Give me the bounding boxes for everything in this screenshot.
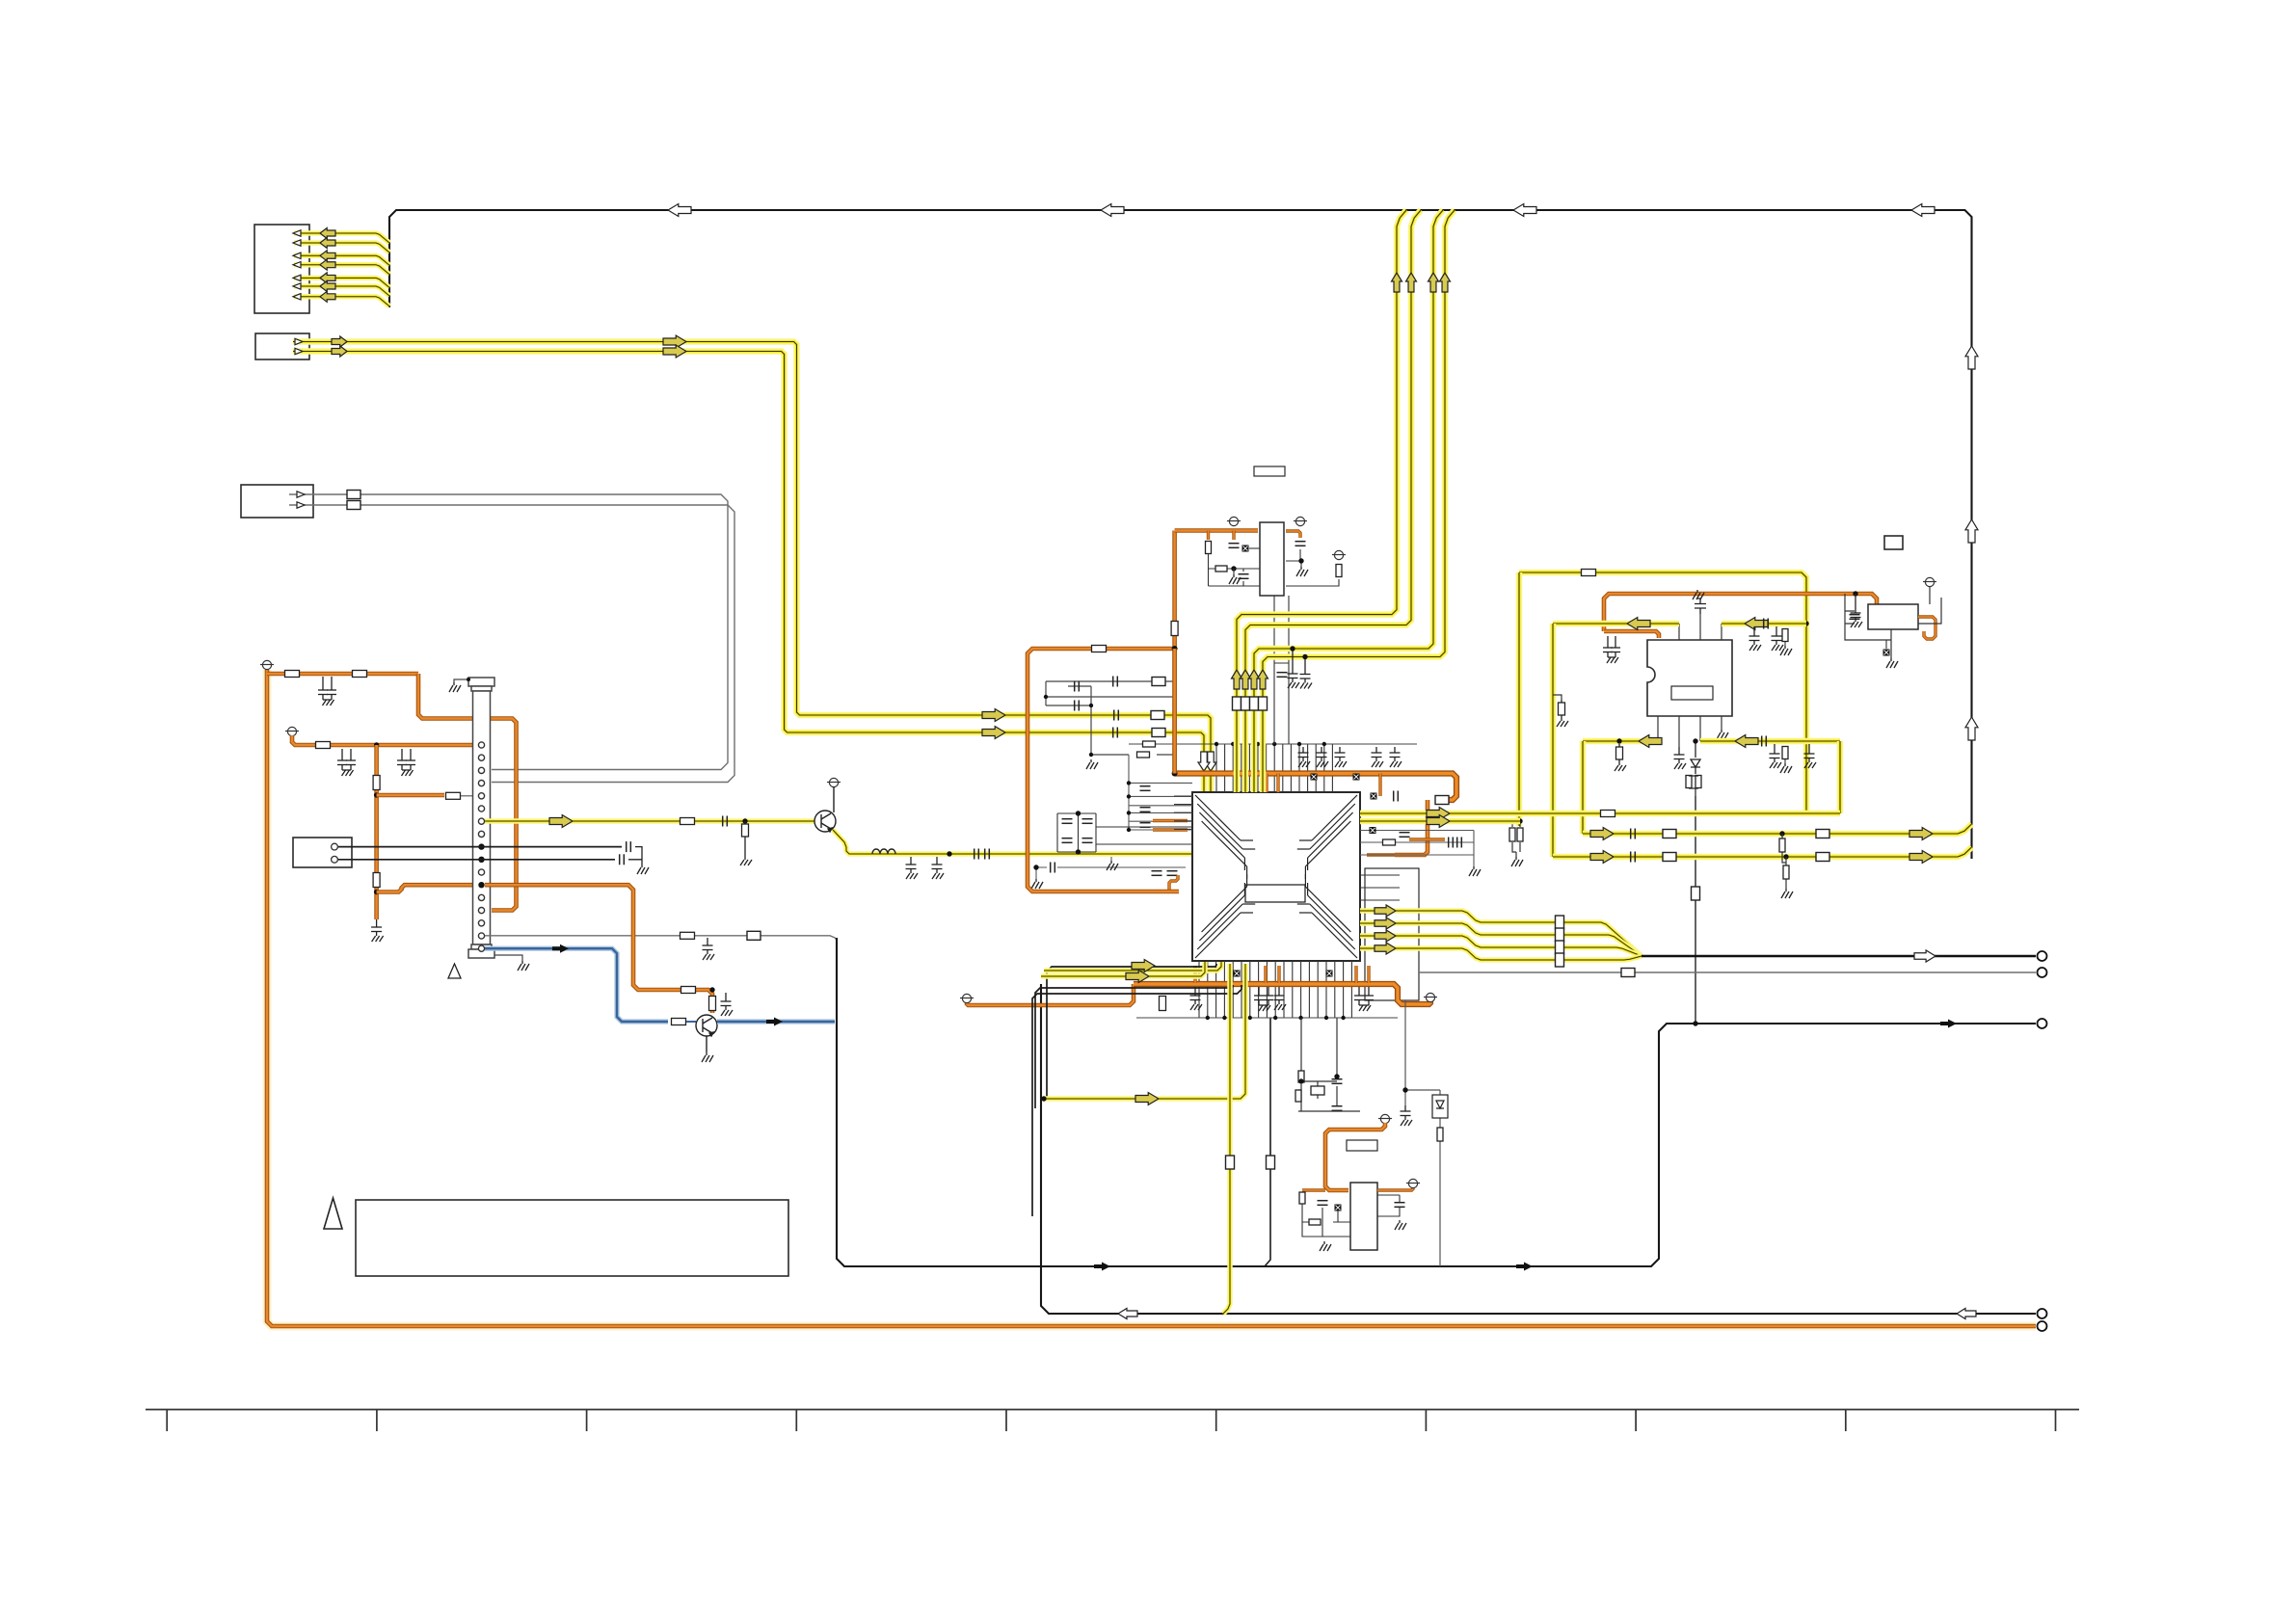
wire orange reg2 left bracket: [1302, 1188, 1325, 1191]
capacitor right pair b: [1457, 838, 1462, 848]
junction IC603 out: [1298, 558, 1303, 563]
wire Q2 emitter: [706, 1036, 707, 1052]
ground SW caps: [637, 865, 649, 874]
resistor upper ladder: [1137, 752, 1150, 758]
resistor on pin16 line: [681, 932, 695, 939]
switch SW box: [293, 838, 352, 867]
wire IC601 top pin stubs: [1216, 744, 1332, 792]
junction diode top: [1693, 738, 1697, 743]
junction upper ladder b: [1089, 704, 1093, 707]
junction yellow vbus a: [1290, 646, 1295, 651]
ground U3: [1886, 658, 1898, 668]
capacitor pair bottom bus de: [1354, 987, 1374, 1011]
square mark c: [1371, 793, 1377, 800]
pin FFC-9 (filled): [478, 843, 484, 849]
arrow CN1 signal 7: [320, 291, 335, 302]
wire CN1 yellow signal 5: [294, 278, 389, 287]
resistor in orange vertical: [373, 776, 380, 790]
wire blue Q2 out: [717, 1019, 835, 1024]
arrow on top bus: [668, 204, 691, 217]
capacitor pair to gnd P2 ab: [337, 749, 356, 776]
arrow CN2-A: [332, 336, 347, 347]
capacitor amp in2 gnd2: [1772, 626, 1784, 651]
wire cap grid frame: [1057, 813, 1192, 852]
capacitor series on 886 b: [985, 849, 990, 860]
pin FFC-7: [478, 818, 484, 824]
arrow on right bus vertical: [1965, 717, 1978, 740]
capacitor top decoupling 3: [1335, 747, 1348, 767]
capacitor yellow vbus b: [1300, 657, 1313, 689]
capacitor reg2 right: [1395, 1203, 1405, 1208]
arrow yellow vbus low 4: [1258, 670, 1268, 689]
pin CN3-2: [297, 502, 305, 508]
arrow y889: [1590, 851, 1614, 864]
ferrite yellow vbus 2: [1241, 697, 1250, 710]
capacitor right rows: [1400, 833, 1410, 838]
wire CN1 yellow signal 6: [294, 286, 389, 296]
square mark IC603: [1242, 545, 1249, 552]
ferrite yellow vbus 4: [1259, 697, 1268, 710]
pin CN1-4: [293, 262, 301, 268]
pin FFC-11: [478, 869, 484, 875]
wire vertical 1318 to bus: [1265, 1018, 1270, 1266]
connector CN1: [254, 225, 309, 313]
wire IC603 left net: [1209, 554, 1261, 586]
ground amp or drop: [1780, 763, 1792, 773]
arrow yellow below 3: [1135, 1093, 1159, 1105]
wire CN2 yellow A: [293, 342, 1211, 793]
capacitor top decoupling 5: [1390, 747, 1402, 767]
arrow CN1 signal 3: [320, 251, 335, 261]
wire rail under IC601: [1136, 1017, 1398, 1019]
wire orange stub up 5: [1367, 966, 1370, 983]
wire orange bar left rows b: [1153, 828, 1188, 831]
wire CN2 yellow B: [293, 352, 1204, 793]
wire gnd stub under yellow: [1110, 857, 1112, 861]
arrow amp in: [1627, 618, 1650, 630]
wire IC603 fb gnd lead: [1233, 569, 1235, 574]
arrow yellow vbus low 3: [1249, 670, 1260, 689]
junction IC603 fb: [1231, 566, 1236, 571]
ground under yellow: [1107, 861, 1118, 870]
wire thin line to terminal 1009: [1419, 971, 2036, 973]
capacitor pair amp feed: [1603, 636, 1620, 663]
wire yellow line y865: [1583, 824, 1972, 834]
arrow QFP out A: [1427, 808, 1450, 820]
resistor pair below diode b: [1695, 776, 1701, 788]
wire orange stub up 3: [1277, 966, 1280, 983]
resistor to FFC pin5: [446, 792, 461, 799]
wire orange bus top: [1172, 531, 1177, 774]
wire IC601 left rows: [1129, 783, 1192, 830]
junction grid a: [1076, 811, 1081, 815]
resistor amp or drop: [1782, 747, 1788, 759]
wire yellow QFP out B: [1360, 818, 1520, 825]
capacitor series on 886: [974, 849, 979, 860]
arrow amp out left: [1639, 735, 1662, 748]
capacitor row 906 a: [1152, 871, 1162, 876]
wire orange P2 branch: [292, 735, 479, 745]
wire yellow line y889: [1553, 847, 1972, 857]
arrow on loop: [1094, 1263, 1110, 1271]
capacitor yellow vbus a: [1288, 649, 1300, 688]
arrow on right bus vertical: [1965, 519, 1978, 543]
capacitor reg2 left: [1318, 1201, 1328, 1206]
wire bus above IC601: [1129, 743, 1417, 745]
arrow yellow below 2: [1126, 971, 1149, 983]
arrow yellow vbus 2: [1406, 273, 1417, 292]
arrow on top bus: [1101, 204, 1124, 217]
arrow blue Q2 out: [766, 1018, 783, 1026]
resistor on P1 branch 2: [353, 671, 367, 678]
resistor reg2 left: [1299, 1192, 1305, 1204]
capacitor IC603 in: [1229, 544, 1240, 548]
wire orange IC603 out: [1286, 531, 1300, 538]
capacitor top decoupling 1: [1298, 747, 1311, 767]
power flag bottom right: [1424, 993, 1437, 1001]
junction orange y802: [1172, 771, 1178, 777]
IC601 corner pins top-left: [1195, 795, 1255, 879]
arrow on right bus vertical: [1965, 346, 1978, 369]
capacitor left column 3: [1140, 823, 1151, 828]
wire orange bus y802: [1175, 774, 1456, 801]
wire orange stub r1253: [1207, 531, 1210, 541]
capacitor amp in2 gnd: [1749, 626, 1762, 651]
resistor on y844: [1601, 811, 1615, 817]
resistor pair below diode a: [1686, 776, 1692, 788]
wire thin to pin5: [461, 795, 479, 797]
arrow yellow bundle 3: [1375, 930, 1396, 942]
wire orange drop 1432: [1378, 774, 1381, 797]
ferrite on yellow 1276: [1226, 1156, 1235, 1169]
pin FFC-1: [478, 742, 484, 748]
wire FFC top ground lead: [454, 679, 468, 682]
arrow yellow vbus 1: [1392, 273, 1402, 292]
wire SW-2 to caps: [338, 859, 615, 861]
arrow yellow vbus low 1: [1232, 670, 1242, 689]
photo-diode box D1: [1432, 1095, 1448, 1118]
wire yellow Q1 out: [833, 830, 1192, 854]
ferrite bundle 3: [1556, 941, 1564, 954]
arrow QFP out B: [1427, 815, 1450, 828]
wire orange stub r1280: [1232, 531, 1235, 541]
junction amp out left: [1616, 738, 1621, 743]
junction y865 res: [1779, 831, 1784, 836]
wire U2 pin stubs: [1658, 614, 1722, 747]
wire orange pin12 run: [485, 885, 712, 1013]
arrow on y1363 b: [1957, 1309, 1976, 1319]
pin CN2-1: [295, 338, 303, 344]
ferrite yellow vbus 1: [1233, 697, 1241, 710]
wire Q2 base lead: [686, 1021, 696, 1023]
transistor Q2: [696, 1015, 717, 1036]
wire gray FFC pin16: [485, 936, 837, 940]
wire top bus with right vertical: [389, 210, 1972, 859]
wire U3 left net: [1845, 594, 1941, 658]
square mark bottom b: [1326, 971, 1333, 977]
square mark reg2: [1335, 1205, 1342, 1211]
wire crystal net: [1298, 1018, 1360, 1111]
wire CN1 yellow signal 7: [294, 297, 389, 306]
wire yellow vertical bus 3: [1254, 210, 1443, 792]
wire gray rows right: [1360, 831, 1474, 862]
wire IC603 fb cap link: [1242, 569, 1244, 586]
capacitor amp or gnd b: [1804, 744, 1817, 768]
wire caps to gnd: [628, 847, 642, 865]
ground upper ladder: [1086, 759, 1098, 769]
ferrite on orange vertical: [1171, 622, 1178, 636]
pin FFC-6: [478, 806, 484, 811]
capacitor amp in2: [1764, 619, 1769, 629]
regulator IC603: [1260, 522, 1284, 596]
pin FFC-15: [478, 920, 484, 926]
wire orange IC603 feed: [1175, 528, 1258, 533]
resistor orange drop: [709, 997, 716, 1011]
IC601 corner pins bottom-left: [1195, 874, 1255, 958]
capacitor to gnd pin16: [703, 938, 715, 960]
junction row 900: [1033, 865, 1038, 869]
wire U3 mark lead: [1885, 640, 1887, 649]
resistor tap a: [1779, 838, 1785, 852]
ruler ticks: [167, 1410, 2055, 1432]
arrow CN1 signal 5: [320, 273, 335, 283]
wire orange to FFC pin12: [377, 885, 479, 891]
IC U3 box: [1868, 604, 1918, 629]
arrow yellow bundle 2: [1375, 918, 1396, 929]
arrow down into IC601 B: [1198, 752, 1210, 771]
pin CN1-5: [293, 275, 301, 280]
wire 1611 stub: [1553, 695, 1562, 700]
wire yellow bundle 2: [1360, 923, 1642, 956]
wire yellow vertical 1276: [1223, 964, 1230, 1314]
pin FFC-16: [478, 933, 484, 939]
capacitor on CN2-B: [1113, 728, 1118, 738]
ground resistor taps: [1781, 889, 1793, 898]
capacitor series pin7: [723, 816, 728, 827]
resistor crystal b: [1295, 1090, 1301, 1102]
wire CN1 yellow signal 3: [294, 255, 389, 265]
wire amp or drop gnd: [1784, 759, 1786, 763]
resistor amp out left: [1615, 744, 1626, 771]
wire orange to FFC pin5: [377, 793, 444, 798]
wire loop L3: [1035, 985, 1233, 1108]
capacitor IC603 out: [1295, 542, 1306, 546]
square mark b: [1353, 774, 1360, 781]
arrow yellow pin7: [549, 815, 573, 828]
capacitor row 906 b: [1167, 871, 1178, 876]
transistor Q1: [814, 811, 836, 832]
wire orange P1 branch: [267, 672, 418, 677]
junction amp top/647: [1803, 621, 1808, 625]
junction orange C: [1172, 646, 1178, 652]
resistor to gnd on pin7 line: [740, 821, 752, 865]
capacitor to gnd on 886 b: [932, 857, 945, 879]
wire CN1 yellow signal 4: [294, 265, 389, 275]
wire yellow below QFP 2: [1041, 962, 1205, 976]
resistor 1611 stub: [1557, 700, 1568, 727]
junction pin7 line: [742, 818, 747, 823]
capacitor y889: [1631, 852, 1636, 863]
wire left rows rail: [1128, 755, 1130, 830]
wire orange vert to C: [1172, 649, 1177, 774]
capacitor upper ladder a: [1113, 677, 1118, 687]
arrow down into IC601 A: [1205, 752, 1216, 771]
wire black loop to terminal: [837, 938, 2036, 1266]
arrow yellow bundle 4: [1375, 943, 1396, 954]
wire IC601 bottom pin stubs: [1199, 961, 1351, 1018]
capacitor grid d: [1082, 838, 1093, 843]
square mark bottom a: [1234, 971, 1241, 977]
arrow CN2-B 2: [663, 345, 686, 358]
wire orange amp feed stub: [1604, 631, 1659, 638]
junction on 886: [947, 851, 951, 856]
wire reg vertical a: [1273, 596, 1275, 744]
wire amp in2 drop gnd: [1784, 642, 1786, 646]
capacitor orange vert bottom: [371, 919, 384, 942]
junction orange amp: [1853, 591, 1857, 596]
wire 1576 resistor pair: [1512, 821, 1520, 857]
capacitor near Q2: [721, 993, 734, 1016]
wire orange bar r2: [1367, 853, 1395, 856]
power flag reg2 right: [1406, 1179, 1420, 1187]
junction dots bottom rail: [1206, 1016, 1346, 1020]
ground reg2 bottom: [1320, 1241, 1331, 1251]
pin FFC-10 (filled): [478, 857, 484, 863]
wire yellow amp loop 1642: [1580, 741, 1587, 834]
ferrite y889 b: [1816, 853, 1829, 862]
capacitor on 1458: [1401, 1105, 1413, 1126]
resistor amp in2 drop: [1782, 629, 1788, 642]
capacitor bottom bus c: [1274, 987, 1287, 1010]
junction 1458: [1402, 1087, 1407, 1092]
ferrite yellow vbus 3: [1250, 697, 1259, 710]
arrow CN1 signal 2: [320, 238, 335, 249]
arrow y865: [1590, 828, 1614, 840]
ferrite y889: [1663, 853, 1676, 862]
capacitor pair to gnd P2 cd: [397, 749, 415, 776]
power flag U3: [1923, 577, 1936, 586]
inductor on yellow 886: [872, 849, 895, 854]
resistor below D1: [1437, 1128, 1443, 1141]
capacitor crystal a: [1332, 1079, 1343, 1084]
connector FFC body: [468, 678, 494, 958]
capacitor U2 bottom pin: [1674, 747, 1687, 769]
wire CN1 yellow signal 2: [294, 243, 389, 253]
wire orange main rail: [267, 670, 2036, 1326]
arrow CN2-B: [332, 346, 347, 357]
wire CN3 gray A: [289, 494, 728, 770]
resistor in orange vertical 2: [373, 873, 380, 888]
arrow CN2-A 3: [982, 709, 1005, 722]
resistor 1576 b: [1517, 828, 1523, 841]
junction crystal b: [1334, 1074, 1339, 1078]
pin FFC-13: [478, 894, 484, 900]
junction dots left rows: [1127, 781, 1131, 832]
wire U3 pwr lead: [1929, 586, 1931, 604]
wire yellow vertical bus 2: [1245, 210, 1421, 792]
capacitor between reg verticals: [1277, 673, 1288, 678]
terminal bundle: [2038, 951, 2047, 961]
terminal 1009: [2038, 968, 2047, 977]
ruler line: [146, 1409, 2079, 1411]
capacitor top decoupling 4: [1372, 747, 1384, 767]
wire SW-1 to caps: [338, 846, 622, 848]
wire yellow amp top: [1519, 572, 1806, 813]
junction 1576/852: [1517, 818, 1522, 823]
power flag IC603 in: [1227, 517, 1241, 525]
capacitor on SW-2 line: [620, 854, 625, 865]
capacitor grid a: [1062, 819, 1073, 824]
power flag IC603 out: [1294, 517, 1307, 525]
ferrite on CN2-A: [1151, 711, 1164, 720]
wire CN3 gray B: [289, 505, 734, 783]
ferrite y865: [1663, 830, 1676, 838]
wire orange C loop: [1028, 649, 1179, 891]
diode below U2: [1691, 741, 1700, 774]
capacitor on SW-1 line: [627, 841, 631, 852]
wire loop L1: [1047, 964, 1216, 1099]
wire orange stub a: [1265, 774, 1268, 793]
ferrite on pin16 line: [747, 931, 761, 940]
power flag IC603 en: [1332, 550, 1346, 559]
arrow CN2-B 3: [982, 727, 1005, 739]
resistor reg2 left b: [1309, 1219, 1321, 1225]
arrow yellow bundle 1: [1375, 905, 1396, 917]
junction 1759 bottom: [1693, 1021, 1697, 1025]
junction yellow/L1: [1041, 1096, 1046, 1101]
ferrite on CN3-A: [347, 491, 360, 499]
ferrite on 1759: [1692, 887, 1700, 900]
capacitor grid b: [1062, 838, 1073, 843]
wire yellow bundle 1: [1360, 911, 1642, 956]
wire bus y1363: [1041, 984, 2036, 1314]
pin FFC-17: [478, 945, 484, 951]
capacitor upper ladder b: [1075, 681, 1080, 692]
wire yellow amp in: [1553, 621, 1679, 627]
wire yellow vertical bus 1: [1237, 210, 1406, 792]
resistor IC603 in: [1206, 542, 1212, 554]
wire orange stub up 1: [1193, 966, 1196, 983]
arrow on loop 2: [1516, 1263, 1533, 1271]
wire IC603 mark link: [1249, 547, 1260, 549]
arrow CN1 signal 6: [320, 281, 335, 292]
wire orange bar r1: [1409, 838, 1445, 840]
warning triangle note: [324, 1198, 342, 1229]
junction yellow vbus b: [1302, 654, 1307, 659]
pin FFC-3: [478, 767, 484, 773]
wire yellow amp vertical 1611: [1550, 624, 1557, 857]
resistor tap b: [1783, 865, 1789, 879]
wire upper ladder rows: [1046, 681, 1176, 755]
capacitor left column 2: [1140, 808, 1151, 812]
wire row 900: [1036, 867, 1186, 879]
IC601 right shield box: [1365, 868, 1419, 1000]
wire yellow below QFP 3: [1042, 964, 1245, 1099]
arrow yellow vbus 4: [1440, 273, 1451, 292]
ground U2 top cap: [1693, 590, 1704, 599]
ground amp in2 drop: [1780, 646, 1792, 655]
capacitor IC603 fb: [1239, 574, 1249, 579]
amplifier IC U2 body: [1647, 640, 1732, 716]
ferrite on 1009: [1621, 969, 1635, 977]
pin FFC-12 (filled): [478, 882, 484, 888]
wire orange jog: [1169, 875, 1178, 891]
wire orange staircase to FFC: [418, 674, 517, 911]
resistor amp top: [1582, 570, 1596, 576]
regulator IC602: [1350, 1183, 1377, 1250]
note box: [356, 1200, 788, 1276]
arrow yellow below 1: [1132, 960, 1155, 972]
